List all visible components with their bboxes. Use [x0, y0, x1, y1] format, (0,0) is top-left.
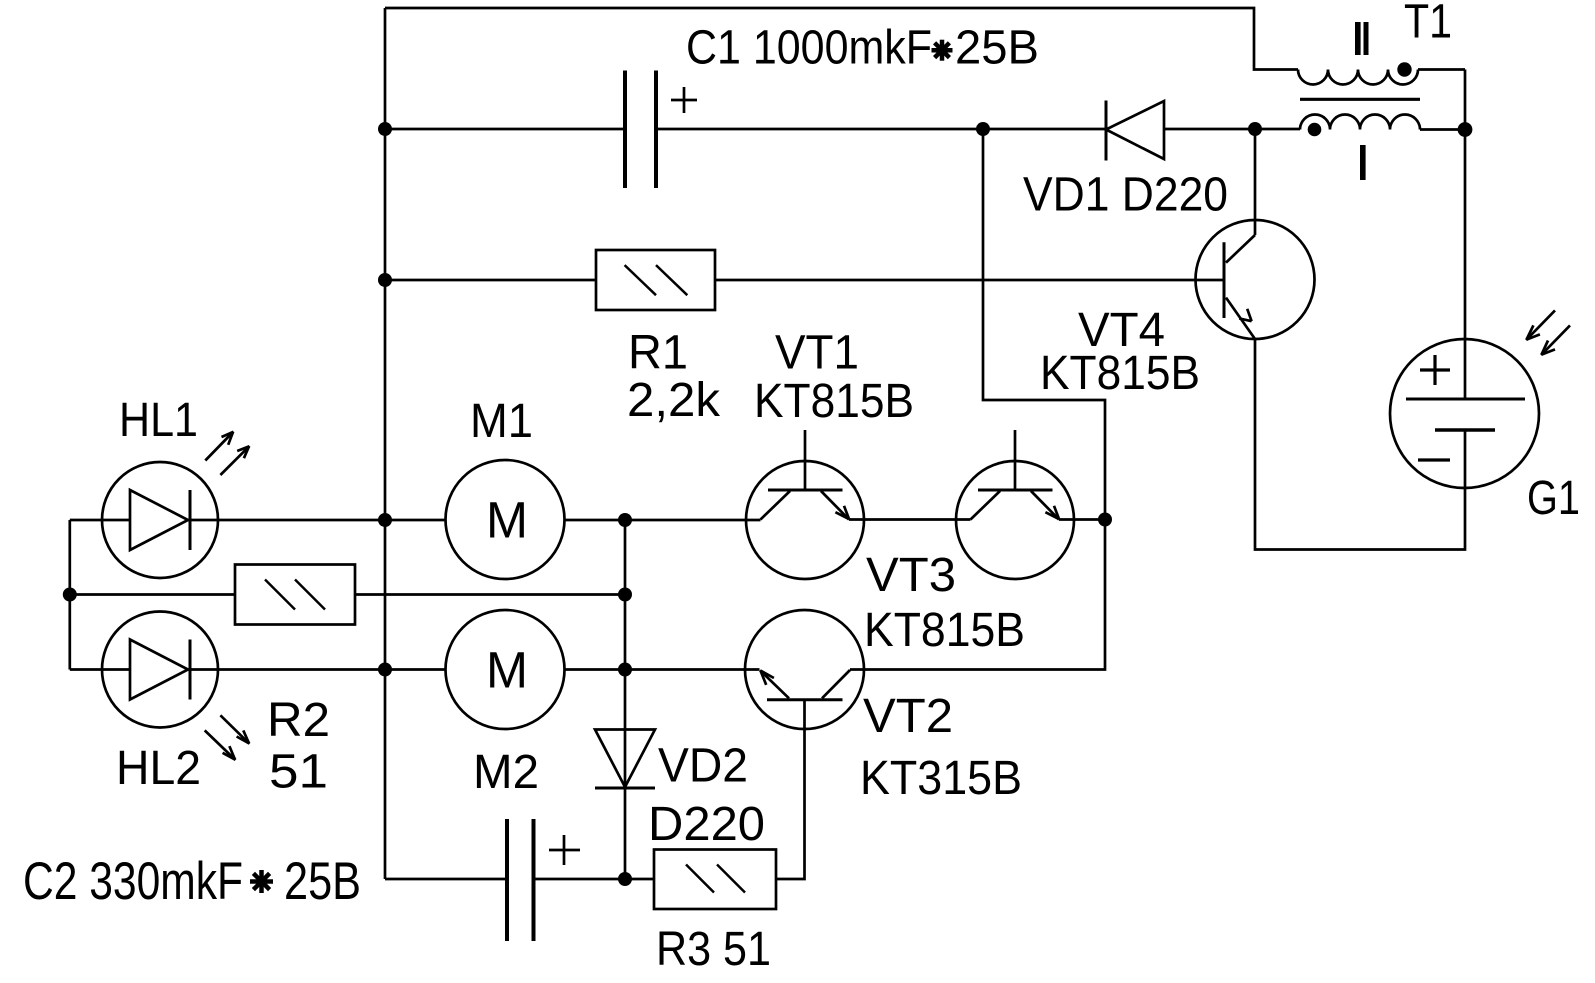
svg-text:HL2: HL2	[116, 742, 201, 795]
svg-text:R2: R2	[267, 694, 330, 747]
svg-text:25B: 25B	[284, 852, 361, 911]
svg-text:VD2: VD2	[658, 740, 748, 793]
svg-text:M1: M1	[470, 395, 533, 448]
svg-text:M: M	[486, 641, 528, 698]
svg-text:KT815B: KT815B	[864, 604, 1025, 657]
svg-text:KT315B: KT315B	[860, 752, 1022, 805]
svg-text:25B: 25B	[955, 22, 1039, 75]
svg-text:VT1: VT1	[775, 327, 859, 380]
svg-text:R3 51: R3 51	[656, 923, 771, 976]
svg-text:KT815B: KT815B	[754, 375, 914, 428]
svg-text:VT3: VT3	[866, 549, 956, 602]
svg-text:C2 330mkF: C2 330mkF	[23, 852, 243, 911]
svg-text:G1: G1	[1527, 472, 1580, 525]
svg-text:HL1: HL1	[119, 394, 198, 447]
svg-text:VT2: VT2	[863, 690, 953, 743]
svg-text:VD1 D220: VD1 D220	[1023, 169, 1228, 222]
svg-text:M: M	[486, 491, 528, 548]
svg-text:2,2k: 2,2k	[627, 374, 721, 427]
svg-text:D220: D220	[648, 798, 765, 851]
svg-text:R1: R1	[628, 327, 688, 380]
svg-text:T1: T1	[1404, 0, 1452, 49]
svg-text:C1 1000mkF: C1 1000mkF	[686, 22, 932, 75]
svg-text:M2: M2	[473, 746, 539, 799]
svg-text:KT815B: KT815B	[1040, 347, 1200, 400]
svg-text:51: 51	[269, 746, 328, 799]
